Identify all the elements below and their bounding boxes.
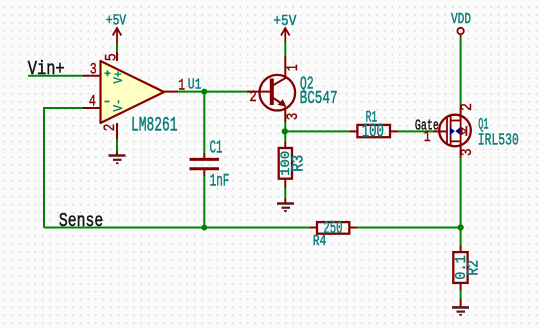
svg-text:1: 1	[424, 128, 431, 146]
resistor R3	[279, 142, 292, 189]
svg-text:2: 2	[250, 88, 257, 106]
pin 1 of Q2 (collector)	[284, 56, 302, 79]
svg-text:+5V: +5V	[106, 12, 126, 29]
svg-text:VDD: VDD	[451, 12, 471, 28]
svg-text:3: 3	[458, 148, 476, 156]
ground under U1	[109, 151, 126, 163]
resistor R4	[310, 222, 357, 234]
pin 2 of Q2 (base pin)	[247, 88, 271, 106]
wire U1 pin 2 to ground	[116, 139, 118, 151]
svg-text:100: 100	[362, 120, 384, 142]
ground under R2	[452, 299, 469, 315]
svg-text:LM8261: LM8261	[131, 114, 178, 137]
svg-text:R2: R2	[464, 260, 482, 275]
wire R1 to Q1 gate	[398, 130, 433, 132]
wire R2 to ground	[460, 290, 462, 299]
svg-text:5: 5	[102, 53, 120, 61]
wire Q2 collector to +5V	[284, 42, 286, 56]
pin 4 of U1	[83, 92, 101, 110]
pin 2 of Q1 (drain)	[458, 103, 476, 121]
wire +5V to U1 pin 5	[116, 44, 118, 52]
svg-text:1: 1	[284, 64, 302, 71]
node U1 output / C1	[201, 89, 207, 95]
wire node to C1	[203, 92, 205, 153]
svg-text:BC547: BC547	[300, 88, 338, 109]
svg-text:V+: V+	[112, 71, 126, 84]
svg-text:1nF: 1nF	[210, 172, 230, 192]
svg-text:C1: C1	[210, 138, 223, 158]
transistor Q1 MOSFET body	[439, 115, 471, 147]
ground under R3	[277, 199, 294, 211]
wire Q1 source to node	[460, 158, 462, 228]
wire Q2 emitter to node	[284, 122, 286, 131]
power VDD	[451, 12, 471, 38]
wire Vin+ to U1 pin 3	[28, 75, 83, 77]
pin 3 of Q2 (emitter)	[284, 107, 302, 122]
capacitor C1	[190, 153, 220, 176]
pin 1 of U1 (output)	[164, 77, 185, 95]
wire node to R3	[284, 131, 286, 141]
pin 3 of Q1 (source)	[458, 141, 476, 158]
transistor Q2 body	[260, 75, 296, 111]
wire C1 to Sense net	[203, 176, 205, 228]
node Sense / C1	[201, 225, 207, 231]
svg-text:2: 2	[101, 124, 119, 132]
resistor R2	[453, 245, 467, 290]
wire node to R2	[460, 228, 462, 246]
power +5V at Q2	[273, 13, 296, 42]
wire Q2 emitter node to R1	[285, 130, 350, 132]
node source / Sense / R2	[457, 224, 463, 230]
svg-text:3: 3	[284, 113, 302, 121]
svg-text:3: 3	[90, 60, 97, 78]
svg-text:IRL530: IRL530	[478, 131, 519, 150]
wire R4 to node	[357, 227, 461, 229]
op-amp U1 triangle body	[101, 61, 165, 123]
svg-text:Sense: Sense	[59, 210, 103, 232]
wire U1 output to Q2 base	[178, 91, 247, 93]
wire R3 to ground	[284, 188, 286, 199]
power +5V at U1 pin 5	[106, 12, 126, 44]
svg-text:R4: R4	[313, 234, 327, 250]
svg-text:4: 4	[89, 92, 96, 110]
svg-text:R3: R3	[288, 155, 307, 172]
pin 3 of U1	[83, 60, 101, 78]
svg-text:V-: V-	[112, 99, 126, 112]
wire VDD to Q1 drain	[460, 38, 462, 106]
pin 1 of Q1 (gate pin)	[424, 128, 447, 146]
pin 2 of U1	[101, 123, 119, 139]
wire U1 pin 4 net	[44, 108, 83, 228]
node Q2 emitter junction	[282, 128, 288, 134]
wire Sense net	[44, 227, 310, 229]
resistor R1	[350, 125, 399, 137]
pin 5 of U1	[102, 52, 120, 61]
